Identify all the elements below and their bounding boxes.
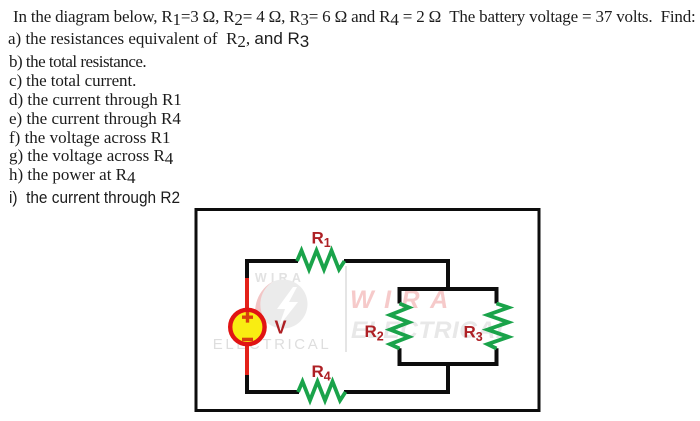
wire left branch: top node to bottom node through battery [247, 261, 299, 392]
wire parallel block to bottom wire [344, 364, 448, 392]
problem text [13, 7, 696, 27]
wire parallel bottom rail [400, 348, 497, 364]
svg-text:V: V [275, 318, 287, 338]
resistor R1 [297, 251, 345, 270]
svg-text:R1: R1 [312, 229, 331, 251]
wire parallel top rail [400, 289, 497, 304]
svg-text:R4: R4 [312, 362, 331, 384]
resistor R3 [488, 304, 509, 349]
wire top node to parallel block [344, 261, 448, 289]
resistor R4 [298, 382, 346, 401]
svg-text:ELECTRICAL: ELECTRICAL [213, 336, 332, 353]
battery V [230, 310, 264, 344]
wire red battery leads [245, 278, 249, 375]
resistor R2 [390, 304, 409, 349]
